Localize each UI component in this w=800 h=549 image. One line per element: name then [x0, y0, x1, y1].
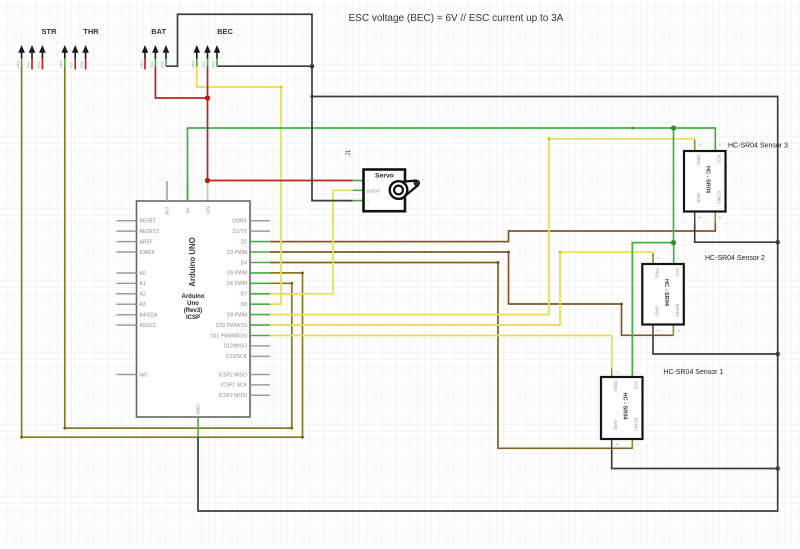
- junction red servo VCC / VIN: [205, 178, 210, 183]
- junction black bus top: [310, 95, 313, 98]
- svg-text:2: 2: [615, 372, 619, 374]
- svg-text:GND: GND: [211, 60, 215, 68]
- bendpoint olive THR corners: [63, 427, 66, 430]
- svg-text:HC-SR04 Sensor 1: HC-SR04 Sensor 1: [663, 369, 723, 376]
- svg-text:GND: GND: [37, 60, 41, 68]
- svg-text:D13/SCK: D13/SCK: [226, 354, 248, 360]
- wire BAT GND up over to servo GND: [166, 14, 353, 200]
- svg-text:pulse: pulse: [59, 60, 63, 68]
- svg-text:HC - SR04: HC - SR04: [663, 279, 669, 307]
- svg-text:2: 2: [656, 257, 660, 259]
- wire D4 to ECHO sensor1: [270, 263, 632, 449]
- svg-text:TRIG: TRIG: [696, 155, 701, 166]
- svg-text:HC-SR04 Sensor 3: HC-SR04 Sensor 3: [728, 143, 788, 150]
- svg-text:VCC: VCC: [675, 268, 680, 277]
- svg-text:RESET: RESET: [140, 219, 157, 225]
- svg-text:RESET2: RESET2: [140, 229, 160, 235]
- svg-text:1: 1: [367, 179, 369, 183]
- svg-text:2: 2: [698, 144, 702, 146]
- wire 5V to VCC sensor3: [188, 128, 716, 201]
- svg-text:GND: GND: [160, 60, 164, 68]
- svg-text:A2: A2: [140, 292, 146, 298]
- svg-text:3: 3: [676, 330, 680, 332]
- sensor U4 HC-SR04 Sensor 1: [601, 369, 723, 451]
- svg-text:VCC: VCC: [150, 61, 154, 68]
- wire GND bus right side and bottom to Arduino GND: [198, 97, 778, 512]
- junction red BAT/BEC VCC: [205, 95, 210, 100]
- Arduino top pin stubs: [166, 181, 168, 201]
- bendpoint green: [631, 127, 634, 130]
- svg-text:D12/MISO: D12/MISO: [224, 344, 247, 350]
- svg-text:D10 PWM/SS: D10 PWM/SS: [216, 323, 248, 329]
- svg-text:Arduino UNO: Arduino UNO: [188, 237, 197, 286]
- svg-text:HC - SR04: HC - SR04: [705, 166, 711, 194]
- svg-text:A4/SDA: A4/SDA: [140, 313, 158, 319]
- wire GND sensor3 to bus: [695, 224, 778, 243]
- svg-text:3: 3: [367, 199, 369, 203]
- sensor U3 HC-SR04 Sensor 3: [684, 140, 788, 224]
- wire servo pulse to D7: [270, 190, 353, 293]
- svg-text:D1/TX: D1/TX: [233, 229, 248, 235]
- svg-text:D4: D4: [241, 260, 248, 266]
- wire junction to servo VCC: [208, 180, 353, 182]
- servo J1: [346, 149, 419, 211]
- svg-text:Arduino: Arduino: [182, 294, 205, 300]
- svg-text:VCC: VCC: [70, 61, 74, 68]
- wire D9 to TRIG sensor3: [270, 139, 695, 315]
- wire D3 to ECHO sensor2: [270, 252, 673, 335]
- svg-text:Uno: Uno: [187, 301, 199, 307]
- svg-text:1: 1: [676, 257, 680, 259]
- svg-text:GND: GND: [696, 193, 701, 203]
- wire D11 to TRIG sensor1: [270, 336, 612, 369]
- svg-text:ICSP: ICSP: [186, 315, 200, 321]
- svg-text:D11 PWM/MOSI: D11 PWM/MOSI: [210, 333, 247, 339]
- Arduino right pin stubs gray: [250, 221, 270, 396]
- svg-text:pulse: pulse: [367, 188, 380, 194]
- svg-text:pulse: pulse: [139, 60, 143, 68]
- wire D2 to ECHO sensor3: [270, 224, 715, 242]
- bendpoint yellow corners: [548, 137, 551, 140]
- svg-text:pulse: pulse: [16, 60, 20, 68]
- Arduino left pin labels: [140, 219, 160, 379]
- svg-text:A5/SCL: A5/SCL: [140, 323, 157, 329]
- svg-text:1: 1: [635, 372, 639, 374]
- svg-text:pulse: pulse: [191, 60, 195, 68]
- junction green node A: [671, 125, 676, 130]
- sensor U2 HC-SR04 Sensor 2: [642, 254, 765, 336]
- svg-text:D9 PWM: D9 PWM: [227, 312, 247, 318]
- svg-text:ECHO: ECHO: [675, 304, 680, 317]
- svg-text:THR: THR: [83, 27, 99, 36]
- wire STR pulse to D5: [22, 67, 303, 438]
- Arduino top pin labels rotated: [165, 206, 211, 215]
- wire node A vertical to VCC sensor2: [673, 128, 675, 264]
- junction black bus sensor3: [775, 240, 780, 245]
- svg-text:ICSP2 MOSI: ICSP2 MOSI: [218, 393, 247, 399]
- svg-text:VCC: VCC: [634, 381, 639, 390]
- svg-text:GND: GND: [654, 306, 659, 316]
- op-amp U1 Arduino Uno box: [117, 181, 271, 437]
- svg-text:HC - SR04: HC - SR04: [622, 393, 628, 421]
- bendpoint brown corners: [507, 251, 510, 254]
- svg-text:VCC: VCC: [202, 61, 206, 68]
- junction black BEC GND: [310, 64, 315, 69]
- svg-text:VCC: VCC: [26, 61, 30, 68]
- junction green node B: [671, 240, 676, 245]
- Arduino right pin stubs green connected: [250, 242, 270, 336]
- svg-text:Servo: Servo: [375, 173, 394, 180]
- connector BEC: [191, 27, 233, 68]
- svg-text:IOREF: IOREF: [140, 250, 155, 256]
- svg-text:A3: A3: [140, 302, 146, 308]
- svg-text:GND: GND: [196, 404, 201, 415]
- svg-text:3: 3: [635, 444, 639, 446]
- svg-text:3: 3: [718, 217, 722, 219]
- svg-text:J1: J1: [346, 149, 352, 156]
- svg-text:BEC: BEC: [217, 27, 233, 36]
- svg-text:GND: GND: [613, 420, 618, 430]
- svg-text:AREF: AREF: [140, 239, 153, 245]
- svg-text:N/C: N/C: [140, 372, 149, 378]
- svg-text:VCC: VCC: [717, 155, 722, 164]
- wire BEC pulse to D8: [197, 67, 281, 305]
- svg-text:3V3: 3V3: [165, 206, 170, 215]
- connector STR: [16, 27, 57, 70]
- junction black bus sensor2: [775, 352, 780, 357]
- servo pin stubs: [353, 181, 364, 201]
- svg-text:ICSP2 SCK: ICSP2 SCK: [221, 383, 248, 389]
- svg-text:D7: D7: [241, 292, 248, 298]
- svg-text:D0/RX: D0/RX: [232, 219, 247, 225]
- svg-text:VIN: VIN: [206, 206, 211, 214]
- servo horn: [390, 181, 419, 199]
- svg-text:4: 4: [698, 217, 702, 219]
- connector BAT: [139, 27, 169, 70]
- svg-text:GND: GND: [80, 60, 84, 68]
- svg-text:TRIG: TRIG: [654, 268, 659, 279]
- Arduino left pin stubs: [117, 221, 137, 375]
- svg-text:D6 PWM: D6 PWM: [227, 281, 247, 287]
- svg-text:STR: STR: [42, 27, 58, 36]
- wire GND sensor2 to bus: [653, 336, 778, 355]
- junction black bus sensor1: [775, 466, 780, 471]
- wire BEC VCC down to VIN junction: [207, 67, 209, 181]
- svg-text:A1: A1: [140, 281, 146, 287]
- connector THR: [59, 27, 99, 70]
- svg-text:D3 PWM: D3 PWM: [227, 250, 247, 256]
- Arduino right pin labels: [210, 219, 247, 400]
- wire GND sensor1 to bus: [612, 451, 778, 469]
- svg-text:ICSP2 MISO: ICSP2 MISO: [218, 372, 247, 378]
- wire BAT VCC to junction: [155, 67, 207, 99]
- svg-text:ECHO: ECHO: [634, 418, 639, 431]
- wire BEC GND: [217, 65, 312, 67]
- Arduino center label block: [182, 294, 205, 321]
- wire D10 to TRIG sensor2: [270, 252, 653, 325]
- svg-text:D2: D2: [241, 239, 248, 245]
- svg-text:1: 1: [718, 144, 722, 146]
- svg-text:4: 4: [656, 330, 660, 332]
- bendpoint olive STR corners: [20, 436, 23, 439]
- pin stub VIN light green: [207, 181, 209, 201]
- wire THR pulse to D6: [65, 67, 292, 429]
- svg-text:BAT: BAT: [151, 27, 166, 36]
- svg-text:D8: D8: [241, 302, 248, 308]
- wire branch to VCC sensor1: [632, 243, 673, 377]
- svg-text:D5 PWM: D5 PWM: [227, 271, 247, 277]
- Arduino bottom GND stub: [197, 417, 199, 437]
- svg-text:5V: 5V: [185, 206, 190, 213]
- svg-text:TRIG: TRIG: [613, 381, 618, 392]
- svg-text:(Rev3): (Rev3): [184, 308, 202, 314]
- svg-text:HC-SR04 Sensor 2: HC-SR04 Sensor 2: [705, 255, 765, 262]
- svg-text:ECHO: ECHO: [717, 191, 722, 204]
- svg-text:ESC voltage (BEC) = 6V // ESC: ESC voltage (BEC) = 6V // ESC current up…: [349, 13, 564, 24]
- svg-text:A0: A0: [140, 271, 146, 277]
- svg-text:4: 4: [615, 444, 619, 446]
